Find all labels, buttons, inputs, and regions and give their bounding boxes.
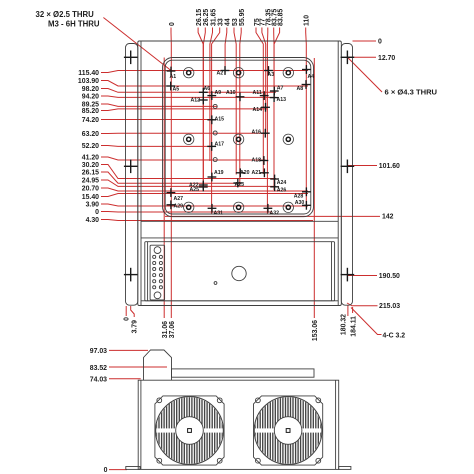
- svg-text:A30: A30: [295, 200, 305, 206]
- svg-text:A7: A7: [277, 85, 284, 91]
- svg-text:74.20: 74.20: [82, 117, 99, 124]
- svg-text:3.90: 3.90: [86, 201, 100, 208]
- svg-text:4-C 3.2: 4-C 3.2: [383, 332, 406, 339]
- svg-text:53: 53: [232, 18, 239, 26]
- svg-text:A9: A9: [215, 90, 222, 96]
- svg-text:52.20: 52.20: [82, 143, 99, 150]
- svg-text:44: 44: [225, 18, 232, 26]
- svg-text:74.03: 74.03: [90, 377, 107, 384]
- svg-text:215.03: 215.03: [379, 303, 400, 310]
- svg-text:83.52: 83.52: [90, 365, 107, 372]
- svg-text:55.95: 55.95: [239, 9, 246, 26]
- svg-text:101.60: 101.60: [379, 163, 400, 170]
- svg-text:6 × Ø4.3 THRU: 6 × Ø4.3 THRU: [385, 87, 438, 96]
- svg-text:A2: A2: [217, 71, 224, 77]
- svg-text:M3 - 6H THRU: M3 - 6H THRU: [48, 20, 100, 29]
- svg-text:0: 0: [169, 22, 176, 26]
- svg-text:A13: A13: [277, 97, 287, 103]
- svg-text:31.65: 31.65: [210, 9, 217, 26]
- svg-text:180.32: 180.32: [340, 314, 347, 335]
- svg-text:20.70: 20.70: [82, 185, 99, 192]
- svg-text:37.06: 37.06: [169, 321, 176, 338]
- svg-text:A16: A16: [252, 130, 262, 136]
- svg-text:A6: A6: [204, 86, 211, 92]
- svg-text:A12: A12: [191, 98, 201, 104]
- svg-text:A20: A20: [240, 170, 250, 176]
- svg-text:4.30: 4.30: [86, 217, 100, 224]
- svg-text:0: 0: [378, 39, 382, 46]
- svg-text:26.15: 26.15: [82, 169, 99, 176]
- svg-text:26.15: 26.15: [196, 9, 203, 26]
- svg-text:41.20: 41.20: [82, 154, 99, 161]
- svg-text:190.50: 190.50: [379, 273, 400, 280]
- svg-text:97.03: 97.03: [90, 348, 107, 355]
- svg-text:A4: A4: [308, 74, 315, 80]
- svg-text:184.11: 184.11: [351, 316, 358, 337]
- svg-text:30.20: 30.20: [82, 162, 99, 169]
- svg-text:32 × Ø2.5 THRU: 32 × Ø2.5 THRU: [36, 10, 95, 19]
- svg-text:A21: A21: [252, 170, 262, 176]
- svg-text:A14: A14: [253, 107, 263, 113]
- svg-text:94.20: 94.20: [82, 93, 99, 100]
- svg-text:A19: A19: [214, 170, 224, 176]
- svg-text:A17: A17: [215, 142, 225, 148]
- svg-text:A23: A23: [235, 182, 245, 188]
- svg-text:A24: A24: [277, 180, 287, 186]
- svg-text:A10: A10: [226, 90, 236, 96]
- svg-text:A31: A31: [214, 210, 224, 216]
- svg-text:110: 110: [304, 15, 311, 26]
- svg-text:153.06: 153.06: [312, 320, 319, 341]
- svg-text:A26: A26: [277, 188, 287, 194]
- svg-text:0: 0: [95, 209, 99, 216]
- svg-text:A28: A28: [294, 193, 304, 199]
- svg-text:24.95: 24.95: [82, 177, 99, 184]
- svg-text:33: 33: [218, 18, 225, 26]
- svg-text:A25: A25: [190, 187, 200, 193]
- svg-text:26.25: 26.25: [203, 9, 210, 26]
- svg-text:A18: A18: [252, 158, 262, 164]
- svg-text:A15: A15: [215, 117, 225, 123]
- svg-text:A27: A27: [174, 196, 184, 202]
- svg-text:3.79: 3.79: [132, 320, 139, 334]
- svg-text:31.06: 31.06: [162, 321, 169, 338]
- svg-text:A32: A32: [270, 210, 280, 216]
- svg-text:115.40: 115.40: [78, 70, 99, 77]
- svg-text:0: 0: [104, 467, 108, 474]
- svg-text:85.20: 85.20: [82, 108, 99, 115]
- svg-text:A29: A29: [174, 204, 184, 210]
- svg-text:83.85: 83.85: [277, 9, 284, 26]
- svg-text:A8: A8: [297, 86, 304, 92]
- svg-text:63.20: 63.20: [82, 131, 99, 138]
- svg-text:A11: A11: [253, 90, 262, 96]
- svg-text:103.90: 103.90: [78, 78, 99, 85]
- svg-text:15.40: 15.40: [82, 194, 99, 201]
- svg-text:12.70: 12.70: [378, 55, 395, 62]
- svg-text:A5: A5: [173, 87, 180, 93]
- svg-text:A1: A1: [170, 74, 177, 80]
- svg-text:98.20: 98.20: [82, 86, 99, 93]
- svg-text:142: 142: [382, 214, 394, 221]
- svg-text:A3: A3: [268, 72, 275, 78]
- svg-text:0: 0: [124, 317, 131, 321]
